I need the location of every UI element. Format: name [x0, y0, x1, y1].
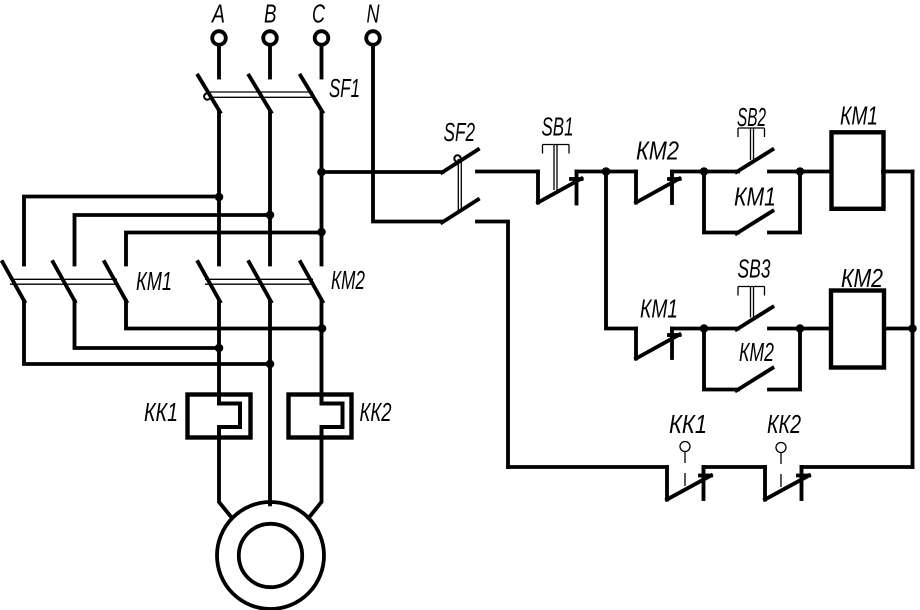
svg-text:SB3: SB3 — [738, 254, 771, 284]
svg-text:КМ1: КМ1 — [734, 182, 776, 212]
svg-text:B: B — [264, 0, 277, 29]
svg-text:КК1: КК1 — [669, 409, 707, 439]
svg-text:КМ2: КМ2 — [331, 265, 365, 295]
svg-text:SF2: SF2 — [444, 117, 476, 147]
svg-text:C: C — [312, 0, 325, 29]
svg-text:КК1: КК1 — [144, 397, 178, 427]
svg-text:SB1: SB1 — [542, 112, 574, 142]
svg-text:КМ2: КМ2 — [636, 136, 679, 166]
svg-text:КМ2: КМ2 — [841, 263, 883, 293]
svg-text:КК2: КК2 — [360, 397, 392, 427]
svg-text:A: A — [211, 0, 225, 29]
svg-text:КК2: КК2 — [767, 409, 801, 439]
svg-text:КМ1: КМ1 — [136, 266, 172, 296]
svg-text:SF1: SF1 — [329, 73, 360, 103]
svg-text:N: N — [367, 0, 380, 29]
svg-text:КМ1: КМ1 — [640, 294, 678, 324]
svg-text:КМ1: КМ1 — [840, 101, 878, 131]
svg-text:КМ2: КМ2 — [739, 337, 774, 367]
svg-text:SB2: SB2 — [737, 102, 766, 132]
